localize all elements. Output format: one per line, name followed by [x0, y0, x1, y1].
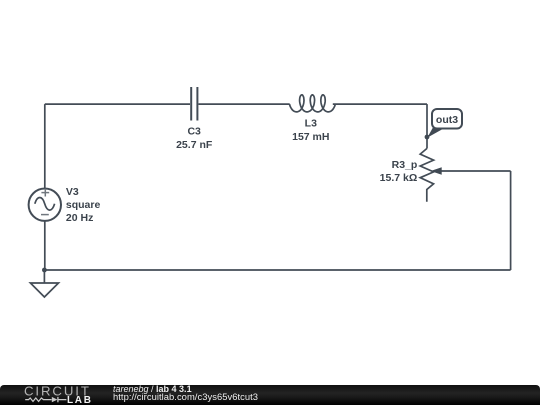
- capacitor C3: [191, 87, 197, 121]
- svg-text:157 mH: 157 mH: [292, 131, 329, 143]
- wire top-left horizontal (V3 to C3 left plate): [45, 103, 190, 105]
- svg-text:out3: out3: [436, 114, 458, 126]
- inductor L3: [290, 95, 336, 112]
- wire left vertical (top corner down to V3 top): [44, 104, 46, 188]
- svg-text:square: square: [66, 199, 101, 211]
- node out3 flag box: [432, 109, 462, 129]
- svg-text:25.7 nF: 25.7 nF: [176, 139, 213, 151]
- potentiometer wiper arrowhead: [431, 167, 442, 175]
- svg-text:15.7 kΩ: 15.7 kΩ: [380, 172, 418, 184]
- wire wiper horizontal: [440, 170, 511, 172]
- CircuitLab logo: [0, 385, 110, 405]
- svg-text:20 Hz: 20 Hz: [66, 212, 93, 224]
- footer text: [113, 385, 258, 402]
- svg-text:R3_p: R3_p: [392, 159, 418, 171]
- svg-text:V3: V3: [66, 186, 79, 198]
- footer bar: [0, 385, 540, 405]
- svg-text:C3: C3: [187, 126, 201, 138]
- junction dot (ground node): [42, 268, 47, 273]
- wire V3 bottom to ground junction: [44, 221, 46, 270]
- node out3 dot: [425, 135, 430, 140]
- wire bottom horizontal (junction to right): [44, 269, 510, 271]
- wire inductor to top-right corner: [333, 103, 427, 105]
- voltage source V3: [29, 189, 61, 221]
- svg-text:LAB: LAB: [67, 394, 93, 404]
- node out3 flag pointer: [427, 128, 445, 138]
- wire top-right corner down to potentiometer (through node out3): [426, 104, 428, 148]
- ground: [30, 270, 58, 297]
- wire C3 right plate to inductor: [199, 103, 290, 105]
- wire right vertical (bottom to wiper): [510, 171, 512, 270]
- potentiometer R3_p: [420, 148, 433, 201]
- svg-text:L3: L3: [305, 118, 317, 130]
